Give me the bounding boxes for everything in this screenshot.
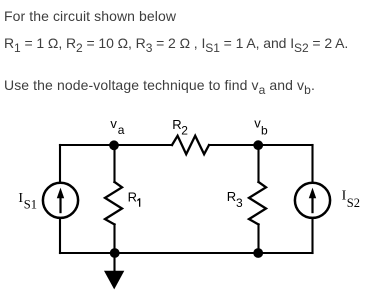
current source IS2 bbox=[295, 183, 330, 218]
svg-text:3: 3 bbox=[236, 196, 243, 210]
wire ground stub bbox=[113, 253, 115, 271]
svg-text:S2: S2 bbox=[347, 196, 360, 210]
problem text line 3 bbox=[4, 78, 315, 92]
wire left branch lower bbox=[59, 219, 61, 254]
label IS2 bbox=[342, 189, 360, 210]
wire bottom rail bbox=[60, 252, 313, 254]
wire branch a upper bbox=[113, 145, 115, 182]
resistor R3 bbox=[249, 182, 266, 224]
bottom node dot b bbox=[253, 248, 263, 258]
svg-text:R: R bbox=[128, 189, 137, 204]
wire left branch upper bbox=[59, 145, 61, 183]
node b dot bbox=[253, 140, 263, 150]
IS2 arrow bbox=[309, 188, 316, 214]
current source IS1 bbox=[43, 183, 78, 218]
wire top rail right: node b to corner bbox=[259, 144, 313, 146]
wire right branch upper bbox=[311, 145, 313, 183]
node a dot bbox=[109, 140, 119, 150]
wire top rail left: corner to node a bbox=[60, 144, 115, 146]
wire top rail: R2 to node b bbox=[209, 144, 259, 146]
wire branch a lower bbox=[113, 224, 115, 253]
problem text line 1 bbox=[4, 9, 176, 23]
IS1 arrow bbox=[57, 188, 64, 214]
wire branch b lower bbox=[257, 224, 259, 253]
wire right branch lower bbox=[311, 219, 313, 254]
problem text line 2 bbox=[4, 36, 348, 50]
svg-text:R: R bbox=[227, 189, 236, 204]
wire top rail: node a to R2 bbox=[115, 144, 173, 146]
svg-text:S1: S1 bbox=[24, 197, 37, 211]
svg-text:a: a bbox=[118, 123, 125, 137]
ground symbol triangle bbox=[104, 271, 124, 290]
svg-text:R: R bbox=[172, 117, 181, 132]
label IS1 bbox=[18, 191, 37, 212]
svg-text:2: 2 bbox=[181, 123, 188, 137]
resistor R1 bbox=[105, 182, 122, 224]
wire branch b upper bbox=[257, 145, 259, 182]
bottom node dot a bbox=[110, 248, 120, 258]
resistor R2 bbox=[172, 136, 209, 154]
svg-text:b: b bbox=[261, 124, 268, 138]
svg-text:v: v bbox=[110, 116, 117, 131]
svg-text:I: I bbox=[18, 191, 23, 206]
